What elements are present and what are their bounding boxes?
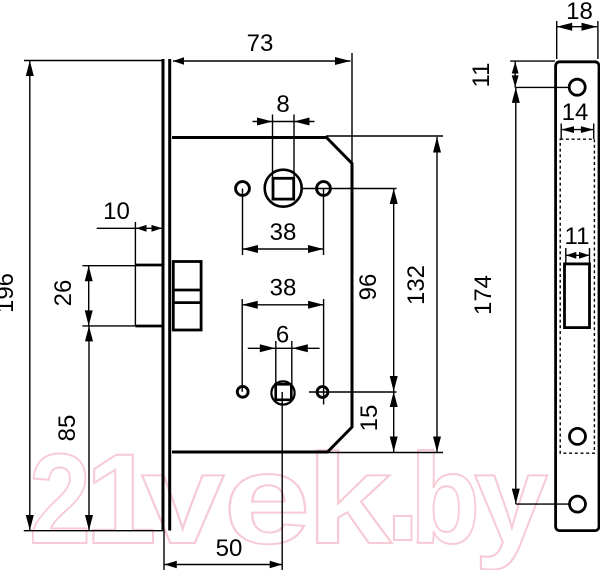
upper right screw hole — [317, 182, 331, 196]
watermark 21vek.by — [29, 428, 548, 570]
upper spindle circle — [265, 170, 302, 207]
lower centerline to 15 dim — [309, 391, 397, 393]
svg-text:96: 96 — [355, 274, 382, 301]
svg-text:8: 8 — [276, 91, 289, 118]
plate top screw hole — [569, 79, 585, 95]
svg-text:50: 50 — [216, 535, 243, 562]
svg-text:y: y — [474, 428, 548, 570]
svg-text:10: 10 — [103, 198, 130, 225]
plate bottom screw hole — [570, 496, 586, 512]
svg-text:38: 38 — [270, 275, 297, 302]
dimension 85 — [85, 326, 93, 531]
lower square hole — [276, 384, 292, 400]
dimension 174 — [512, 87, 570, 504]
dimension 11 top — [510, 61, 569, 87]
svg-text:15: 15 — [356, 405, 383, 432]
svg-text:18: 18 — [566, 0, 593, 25]
dimension 38 lower — [242, 299, 323, 405]
dimension 73 — [24, 53, 352, 163]
lock body outline — [172, 138, 352, 453]
dimension 26 — [82, 266, 135, 326]
lower spindle circle — [271, 381, 294, 404]
svg-text:132: 132 — [403, 265, 430, 305]
latch bolt protrusion — [135, 222, 164, 326]
svg-text:38: 38 — [270, 219, 297, 246]
svg-text:26: 26 — [50, 280, 77, 307]
dimension 50 — [164, 392, 282, 570]
upper left screw hole — [236, 182, 250, 196]
dimension 11 middle — [566, 248, 590, 263]
dimension 15 — [390, 392, 398, 453]
svg-text:73: 73 — [247, 30, 274, 57]
upper centerline to 96 dim — [303, 188, 397, 190]
watermark dot — [394, 516, 412, 540]
upper square hole — [273, 178, 294, 199]
lower right screw hole — [317, 387, 328, 398]
dimension 132 — [326, 136, 443, 453]
plate middle hole — [570, 428, 586, 444]
inner latch mechanism box — [173, 262, 201, 331]
svg-text:11: 11 — [565, 223, 590, 250]
dimension 196 — [24, 61, 163, 531]
dimension 10 — [97, 225, 163, 232]
svg-text:k: k — [307, 428, 393, 570]
svg-text:85: 85 — [54, 415, 81, 442]
dimension 14 — [561, 124, 594, 140]
dimension 96 — [390, 189, 398, 392]
latch window — [565, 264, 590, 328]
faceplate (side view, double line) — [163, 59, 170, 531]
svg-text:196: 196 — [0, 273, 19, 313]
svg-text:14: 14 — [562, 99, 589, 126]
svg-text:2: 2 — [29, 428, 91, 570]
strike plate outline — [556, 62, 599, 531]
svg-text:v: v — [142, 428, 225, 570]
dimension 6 — [248, 341, 320, 384]
svg-text:174: 174 — [470, 275, 497, 315]
dimension 38 upper — [243, 189, 324, 256]
svg-text:b: b — [410, 428, 480, 570]
dashed lock-body outline — [560, 139, 594, 453]
svg-text:11: 11 — [468, 63, 495, 88]
dimension 18 — [557, 21, 598, 59]
svg-text:6: 6 — [276, 322, 289, 349]
lower left screw hole — [237, 386, 248, 397]
dimension 8 — [253, 115, 315, 178]
